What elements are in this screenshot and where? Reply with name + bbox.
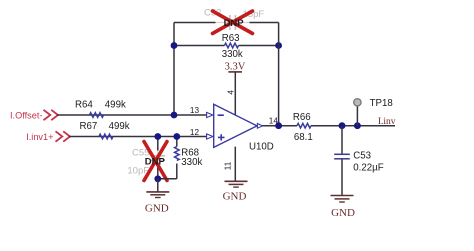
junction (278.6,45.5): [275, 42, 282, 49]
svg-text:R64: R64: [75, 100, 93, 111]
junction (342,125.7): [339, 122, 346, 129]
svg-text:330k: 330k: [181, 157, 202, 168]
svg-text:U10D: U10D: [249, 142, 274, 153]
junction (176.8,136.5): [173, 133, 180, 140]
wire feedback left vertical: [173, 23, 175, 116]
junction (357.4,125.7): [354, 122, 361, 129]
wire pin12 input: [69, 136, 208, 138]
wire feedback top: [174, 22, 279, 24]
svg-text:13: 13: [190, 106, 200, 115]
test point TP18: [354, 98, 393, 126]
svg-text:R67: R67: [80, 121, 98, 132]
wire pin 11: [234, 147, 236, 181]
svg-text:330k: 330k: [222, 49, 243, 60]
junction (174,45.5): [171, 42, 178, 49]
svg-text:0.22µF: 0.22µF: [353, 162, 383, 173]
DNP marker top: [213, 11, 253, 34]
wire R63 branch: [174, 45, 279, 47]
svg-text:3.3V: 3.3V: [225, 62, 246, 73]
svg-text:11: 11: [224, 161, 233, 170]
capacitor C52 (DNP, greyed): [204, 8, 264, 30]
power 3.3V: [225, 62, 246, 115]
capacitor C55 (DNP, greyed): [127, 137, 165, 180]
svg-text:4: 4: [227, 90, 236, 95]
DNP marker bottom: [144, 142, 167, 181]
svg-text:DNP: DNP: [224, 18, 245, 29]
wire output: [262, 125, 395, 127]
resistor R66: [293, 112, 313, 143]
svg-text:I.Offset-: I.Offset-: [10, 111, 43, 121]
junction (157.8,178.8): [154, 175, 161, 182]
svg-text:R63: R63: [222, 33, 240, 44]
resistor R64: [75, 99, 126, 117]
svg-text:68.1: 68.1: [294, 132, 313, 143]
port I.Offset-: [10, 110, 58, 121]
op-amp U10D: [207, 104, 274, 152]
capacitor C53: [334, 126, 384, 196]
svg-text:499k: 499k: [109, 121, 130, 132]
svg-text:R66: R66: [293, 112, 311, 123]
resistor R68: [158, 137, 203, 179]
port I.inv1+: [26, 131, 70, 142]
junction (174,115): [171, 112, 178, 119]
svg-text:499k: 499k: [105, 99, 126, 110]
junction (278.6,125.7): [275, 122, 282, 129]
svg-text:GND: GND: [223, 190, 247, 202]
svg-text:C53: C53: [353, 150, 371, 161]
svg-text:I.inv: I.inv: [378, 117, 396, 127]
svg-text:GND: GND: [145, 202, 169, 214]
ground (right, under C53): [331, 196, 355, 220]
wire feedback right vertical: [278, 23, 280, 126]
resistor R67: [80, 121, 130, 139]
svg-text:GND: GND: [331, 207, 355, 219]
ground (op-amp pin 11): [223, 181, 248, 202]
svg-text:TP18: TP18: [370, 98, 393, 109]
svg-text:I.inv1+: I.inv1+: [26, 132, 53, 142]
svg-text:DNP: DNP: [145, 157, 166, 168]
ground (left, under C55/R68): [145, 179, 169, 215]
junction (157.8,136.5): [154, 133, 161, 140]
wire pin13 input: [57, 114, 208, 116]
svg-text:12: 12: [190, 128, 200, 137]
resistor R63: [222, 33, 243, 60]
